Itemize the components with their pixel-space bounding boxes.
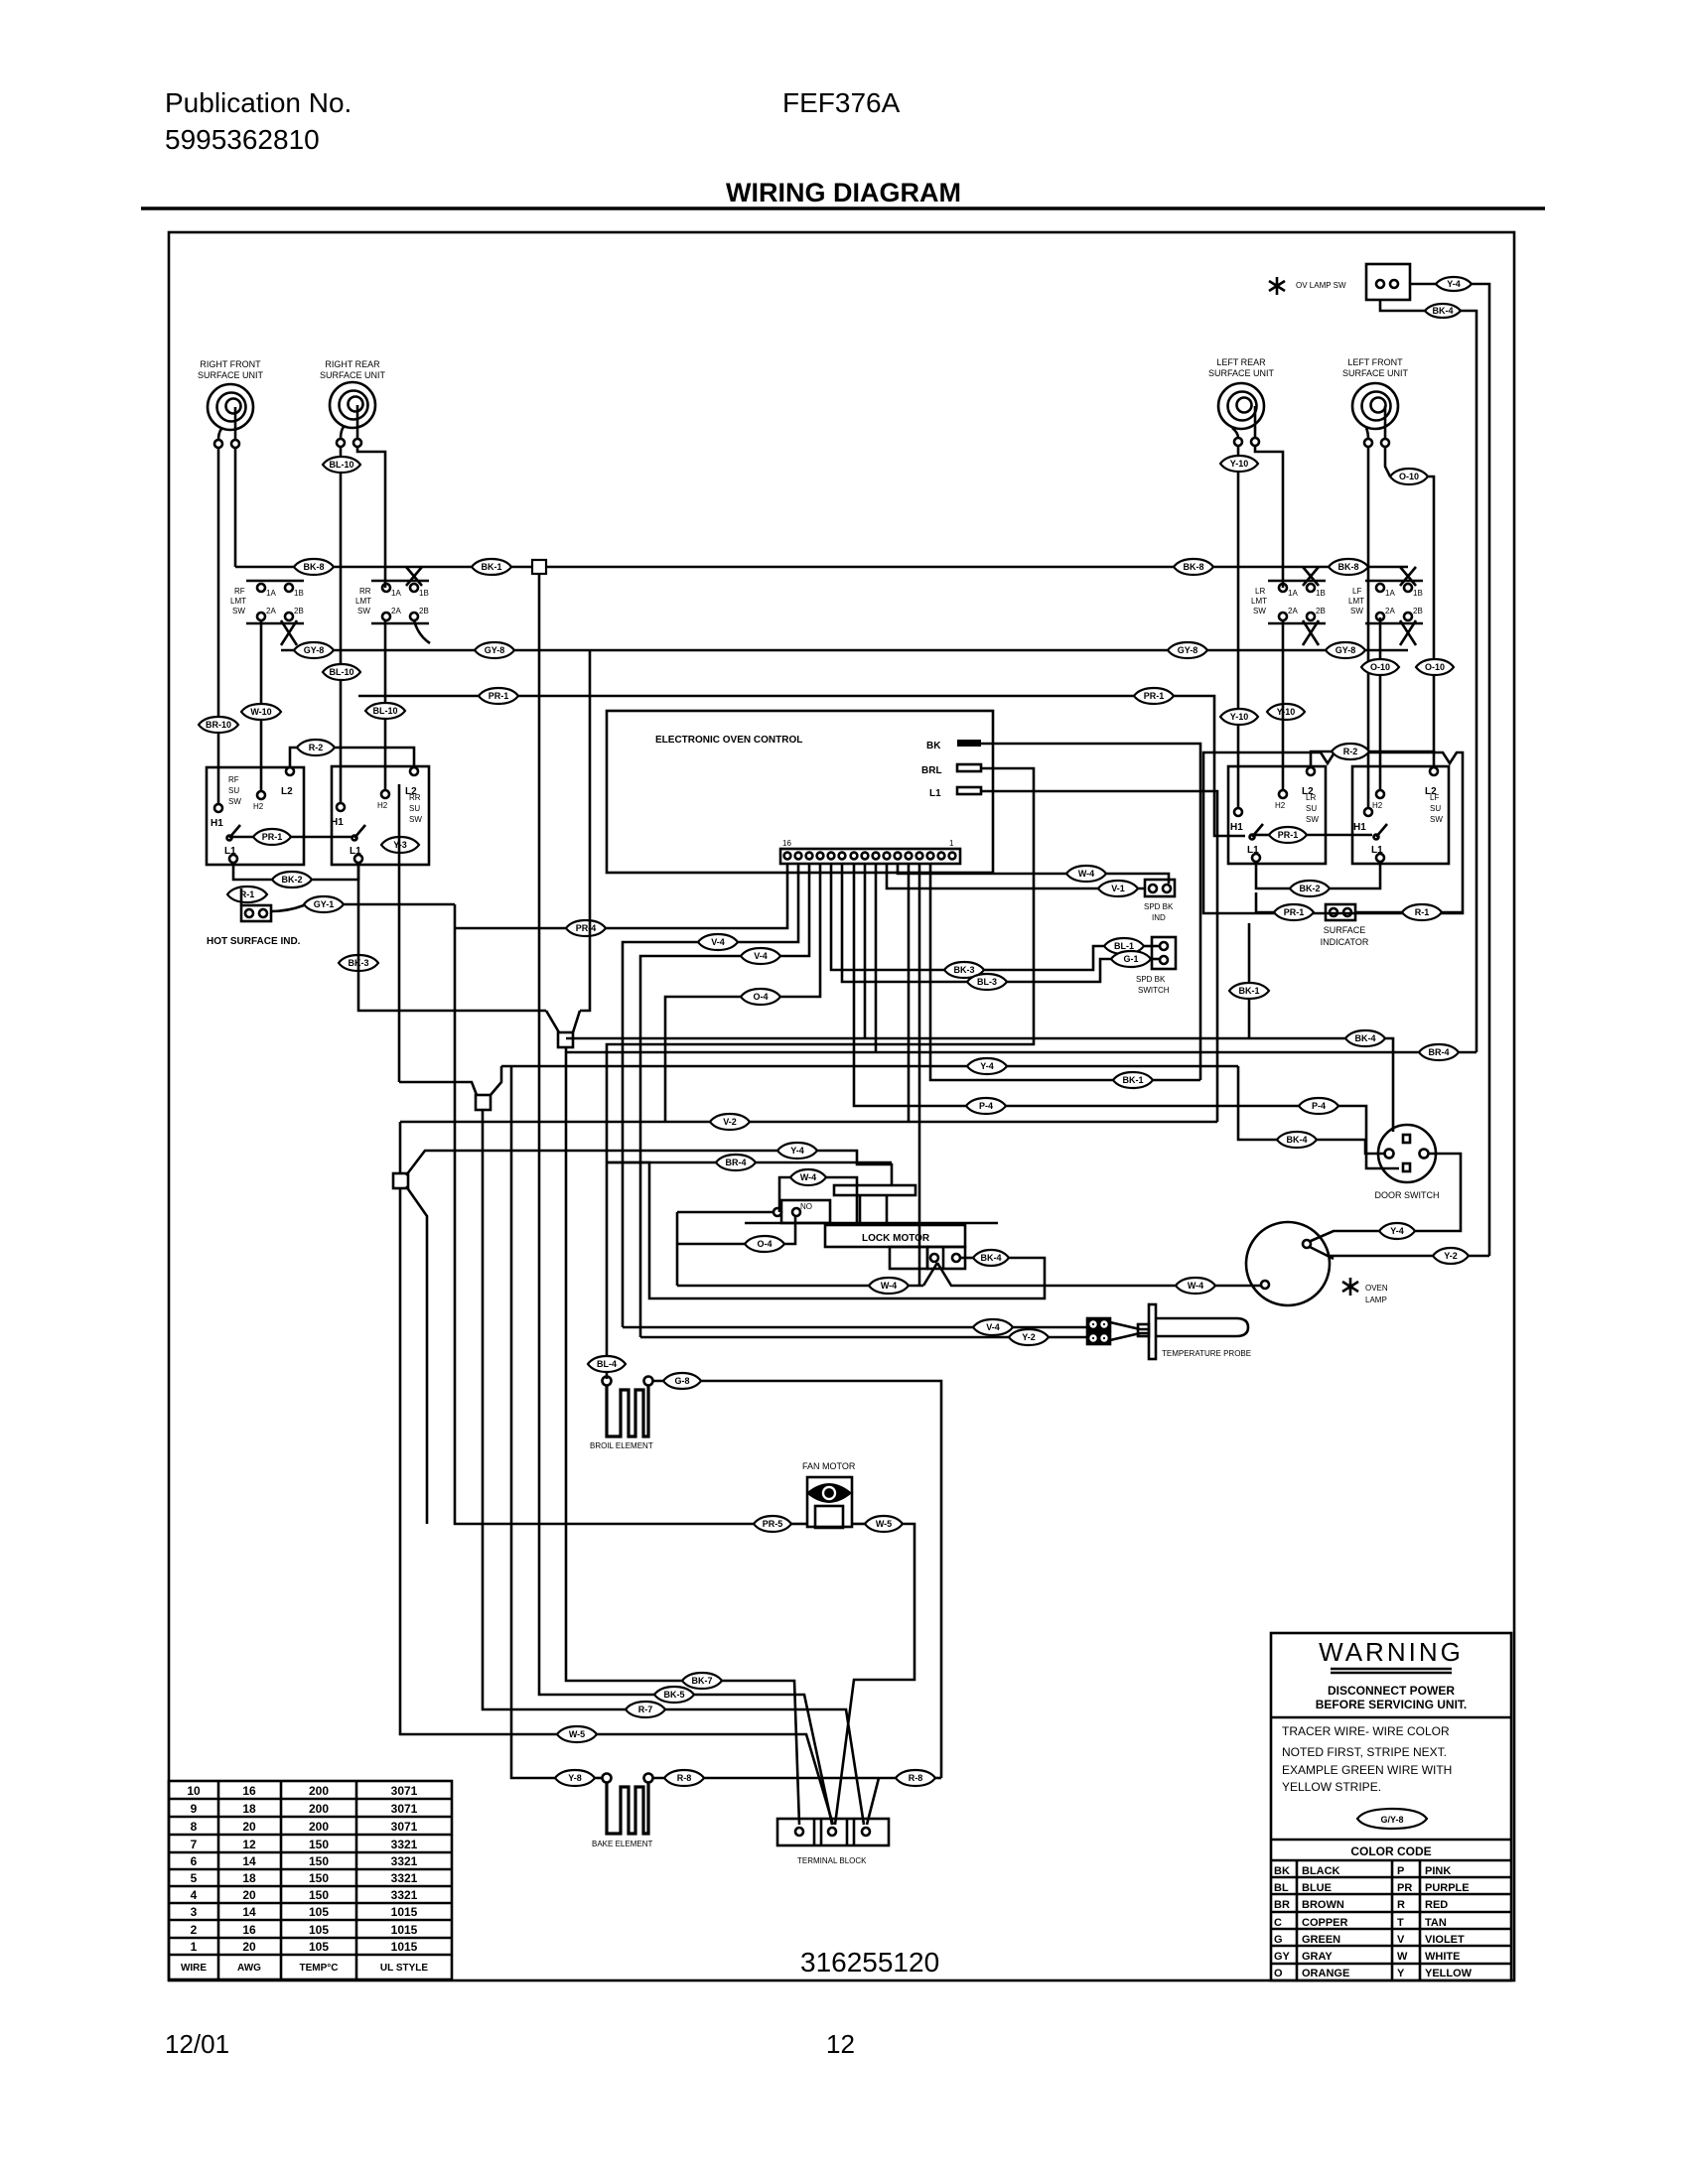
- connector BR-4 on rail: [1419, 1044, 1459, 1060]
- right front surface unit label: [198, 359, 264, 380]
- wire BK-4 rail to door switch top: [566, 1038, 1393, 1132]
- svg-text:UL STYLE: UL STYLE: [380, 1963, 428, 1974]
- wire pin3 drop to BK loop rail: [930, 864, 1200, 1080]
- svg-text:C: C: [1274, 1917, 1282, 1929]
- svg-text:LR: LR: [1255, 587, 1265, 596]
- wire pin4 deep drop to lock area: [918, 864, 921, 1286]
- wire L1 stub right then down: [981, 791, 1217, 1122]
- oven lamp: [1246, 1222, 1334, 1305]
- svg-text:Y-4: Y-4: [1390, 1226, 1404, 1236]
- svg-text:L1: L1: [224, 846, 236, 857]
- svg-text:SW: SW: [232, 607, 245, 615]
- svg-text:RF: RF: [228, 775, 239, 784]
- svg-text:H1: H1: [1353, 822, 1366, 833]
- connector BL-3: [967, 974, 1007, 990]
- svg-text:INDICATOR: INDICATOR: [1321, 937, 1369, 947]
- svg-text:105: 105: [309, 1940, 329, 1954]
- connector BK-8 right on BK rail: [1174, 559, 1213, 575]
- connector R-1: [227, 887, 267, 902]
- funnel junction B square: [476, 1095, 491, 1110]
- svg-text:ORANGE: ORANGE: [1302, 1968, 1349, 1979]
- funnel junction A: [546, 1011, 580, 1047]
- svg-text:SW: SW: [228, 797, 241, 806]
- connector BK-4 on door feed: [1277, 1132, 1317, 1148]
- connector Y-4 on rail: [967, 1058, 1007, 1074]
- wire BK rail: [235, 566, 1408, 569]
- wire LF terminal1 down to H1 LF: [1367, 447, 1370, 808]
- svg-text:3071: 3071: [391, 1802, 418, 1816]
- svg-text:IND: IND: [1152, 913, 1166, 922]
- svg-text:200: 200: [309, 1820, 329, 1834]
- svg-text:150: 150: [309, 1838, 329, 1851]
- wire fan right to W-5: [852, 1523, 865, 1526]
- svg-text:SU: SU: [228, 786, 239, 795]
- connector O-10: [1390, 469, 1428, 484]
- lock motor flag plate: [834, 1185, 915, 1195]
- wire pin8 drop to BR-4 rail: [875, 864, 878, 1052]
- wire W-4 to bar: [826, 1177, 857, 1222]
- svg-text:1B: 1B: [294, 589, 304, 598]
- svg-text:SURFACE UNIT: SURFACE UNIT: [320, 370, 386, 380]
- svg-text:COPPER: COPPER: [1302, 1917, 1348, 1929]
- LF SU SW terminal L1: [1376, 854, 1384, 862]
- svg-text:LF: LF: [1352, 587, 1361, 596]
- svg-text:WARNING: WARNING: [1319, 1637, 1464, 1667]
- svg-text:LOCK MOTOR: LOCK MOTOR: [862, 1233, 930, 1244]
- wire indicator to GY-1 to right vertical: [271, 904, 455, 911]
- svg-text:RF: RF: [234, 587, 245, 596]
- svg-text:L2: L2: [1425, 786, 1437, 797]
- wire rail down to door switch left pin: [1238, 1066, 1385, 1154]
- wire O-10 to L2 LF: [1428, 477, 1434, 751]
- connector Y-3: [381, 837, 419, 853]
- svg-text:1: 1: [949, 839, 954, 848]
- svg-text:PR-1: PR-1: [262, 832, 283, 842]
- svg-text:SURFACE UNIT: SURFACE UNIT: [198, 370, 264, 380]
- junction square on BK rail: [532, 560, 546, 574]
- spd bk switch box: [1152, 937, 1176, 969]
- svg-text:LMT: LMT: [1348, 597, 1364, 606]
- svg-text:W-4: W-4: [1188, 1281, 1203, 1291]
- svg-text:H1: H1: [211, 818, 223, 829]
- wire G-1 to switch: [1151, 958, 1160, 961]
- svg-text:DISCONNECT POWER: DISCONNECT POWER: [1328, 1684, 1455, 1698]
- svg-text:V-4: V-4: [711, 937, 725, 947]
- RR SU SW contact arm: [352, 825, 366, 841]
- junction square C: [393, 1173, 408, 1188]
- connector V-4 probe: [973, 1319, 1013, 1335]
- wire R-8 to vertical: [935, 1777, 941, 1780]
- svg-text:BK-4: BK-4: [1354, 1033, 1375, 1043]
- svg-text:PR-5: PR-5: [763, 1519, 783, 1529]
- LR limit switch block: [1268, 567, 1326, 645]
- wire BR-4 rail to lock flag: [607, 1161, 892, 1164]
- LR SU SW contact arm: [1250, 824, 1264, 840]
- svg-text:FEF376A: FEF376A: [782, 87, 901, 118]
- wire LR terminal1 down to H1 LR: [1237, 446, 1240, 808]
- connector R-2 right: [1332, 744, 1369, 759]
- svg-text:BL-1: BL-1: [1114, 941, 1134, 951]
- RR SU SW terminal H2: [381, 790, 389, 798]
- wire V notch to lock switch pin: [923, 1263, 937, 1286]
- svg-text:9: 9: [191, 1802, 198, 1816]
- surface indicator box: [1326, 904, 1355, 920]
- svg-text:GY-8: GY-8: [485, 645, 505, 655]
- wire square C SE arm down to fan feed: [406, 1186, 427, 1524]
- svg-text:GY-8: GY-8: [1336, 645, 1356, 655]
- svg-text:Y-4: Y-4: [980, 1061, 994, 1071]
- broil element: [603, 1377, 653, 1437]
- svg-text:BK-1: BK-1: [1122, 1075, 1143, 1085]
- svg-text:1A: 1A: [266, 589, 276, 598]
- wire BK square junction down to BK-5 run: [539, 574, 832, 1825]
- svg-text:OVEN: OVEN: [1365, 1284, 1388, 1293]
- RR SU SW terminal H1: [337, 803, 345, 811]
- wire RR L1 down through BK-3 to horizontal run: [358, 863, 546, 1011]
- svg-text:3321: 3321: [391, 1871, 418, 1885]
- wire Y-4 to right then down to oven lamp area: [1472, 284, 1489, 1256]
- connector BL-10 on RR t1: [323, 457, 360, 473]
- svg-text:BK-2: BK-2: [281, 875, 302, 885]
- connector PR-1 on PR rail: [479, 688, 518, 704]
- svg-text:2: 2: [191, 1923, 198, 1937]
- svg-text:1B: 1B: [1413, 589, 1423, 598]
- svg-text:G: G: [1274, 1934, 1283, 1946]
- svg-text:R-7: R-7: [638, 1705, 653, 1714]
- svg-text:OV LAMP SW: OV LAMP SW: [1296, 281, 1346, 290]
- connector W-5: [557, 1726, 597, 1742]
- svg-text:O-10: O-10: [1399, 472, 1419, 481]
- svg-text:16: 16: [242, 1784, 256, 1798]
- wire surface indicator to R-1: [1355, 911, 1402, 914]
- wire GY branch down to funnel A: [580, 650, 590, 1011]
- wire LF terminal2 to O-10 then down: [1385, 447, 1390, 477]
- connector PR-1 between RF RR contacts: [253, 829, 291, 845]
- svg-text:Y-8: Y-8: [568, 1773, 582, 1783]
- svg-text:EXAMPLE GREEN WIRE WITH: EXAMPLE GREEN WIRE WITH: [1282, 1763, 1452, 1777]
- svg-text:BROWN: BROWN: [1302, 1899, 1344, 1911]
- svg-text:150: 150: [309, 1888, 329, 1902]
- RR surface unit switch box: [332, 766, 429, 865]
- svg-text:BROIL ELEMENT: BROIL ELEMENT: [590, 1441, 653, 1450]
- wire L1 rail down to lock junction square C: [399, 1122, 402, 1173]
- wire BRL stub right then down to broil run: [607, 768, 1034, 1379]
- svg-text:3: 3: [191, 1905, 198, 1919]
- wire Y-3 vertical from RR box down: [398, 784, 401, 1082]
- svg-text:LMT: LMT: [355, 597, 371, 606]
- wire BK-4 lock loop to right and down: [607, 1162, 1045, 1298]
- svg-text:SURFACE UNIT: SURFACE UNIT: [1208, 368, 1275, 378]
- connector BK-1 below LR switch: [1229, 983, 1269, 999]
- outer box around LR LF switches: [1203, 752, 1463, 913]
- connector O-4 lock: [745, 1236, 784, 1252]
- connector Y-4 on flag rail: [777, 1143, 817, 1159]
- door switch: [1378, 1125, 1436, 1182]
- svg-text:5: 5: [191, 1871, 198, 1885]
- connector BR-10: [199, 717, 238, 733]
- connector BK-8 far right on BK rail: [1329, 559, 1368, 575]
- LR SU SW terminal L2: [1307, 767, 1315, 775]
- connector Y-2 probe: [1009, 1329, 1049, 1345]
- svg-text:BK-8: BK-8: [1337, 562, 1358, 572]
- svg-text:4: 4: [191, 1888, 198, 1902]
- wire O-4 to cam circle: [677, 1243, 745, 1246]
- LR SU SW terminal L1: [1252, 854, 1260, 862]
- svg-text:PR-4: PR-4: [576, 923, 597, 933]
- title underline: [141, 206, 1545, 210]
- wire RF 2A down to W-10 and H2: [260, 620, 263, 791]
- svg-text:WIRE: WIRE: [181, 1963, 207, 1974]
- oven lamp label: [1342, 1278, 1358, 1296]
- svg-text:L2: L2: [405, 786, 417, 797]
- connector BK-2 right: [1290, 881, 1330, 896]
- wire BK-2 link LR L1 to LF L1: [1256, 862, 1380, 888]
- svg-text:BK-7: BK-7: [691, 1676, 712, 1686]
- svg-text:Y-4: Y-4: [1447, 279, 1461, 289]
- svg-text:12/01: 12/01: [165, 2029, 229, 2059]
- svg-text:V: V: [1397, 1934, 1405, 1946]
- connector W-10: [241, 704, 281, 720]
- svg-text:8: 8: [191, 1820, 198, 1834]
- connector PR-1 to surface indicator: [1274, 904, 1314, 920]
- svg-text:W-10: W-10: [250, 707, 271, 717]
- svg-text:G-8: G-8: [674, 1376, 689, 1386]
- svg-text:YELLOW STRIPE.: YELLOW STRIPE.: [1282, 1780, 1381, 1794]
- svg-text:PR-1: PR-1: [1144, 691, 1165, 701]
- connector W-5 fan: [865, 1516, 903, 1532]
- svg-text:BK-4: BK-4: [980, 1253, 1001, 1263]
- color code table: [1271, 1839, 1511, 1842]
- svg-text:GY-1: GY-1: [314, 899, 335, 909]
- svg-text:PR-1: PR-1: [489, 691, 509, 701]
- svg-text:12: 12: [242, 1838, 256, 1851]
- svg-text:1A: 1A: [391, 589, 401, 598]
- svg-text:3321: 3321: [391, 1838, 418, 1851]
- svg-text:BK-3: BK-3: [953, 965, 974, 975]
- svg-text:L1: L1: [929, 788, 941, 799]
- wire BK-2 link RF L1 to RR L1: [233, 863, 358, 880]
- connector G/Y-8 example: [1357, 1809, 1427, 1829]
- svg-text:18: 18: [242, 1802, 256, 1816]
- svg-text:2B: 2B: [294, 607, 304, 615]
- svg-text:W-5: W-5: [876, 1519, 892, 1529]
- svg-text:O-10: O-10: [1425, 662, 1445, 672]
- wire funnel A down to BK-7 run: [566, 1047, 799, 1825]
- svg-text:1A: 1A: [1385, 589, 1395, 598]
- terminal block: [777, 1819, 889, 1845]
- svg-text:20: 20: [242, 1940, 256, 1954]
- connector R-8 bake: [664, 1770, 704, 1786]
- svg-text:SW: SW: [1350, 607, 1363, 615]
- wire OV LAMP SW pin down to BK-4: [1380, 300, 1425, 311]
- connector O-4: [741, 989, 780, 1005]
- connector BR-4 lock: [716, 1155, 756, 1170]
- left rear surface unit label: [1208, 357, 1275, 378]
- spd bk indicator box: [1145, 880, 1175, 896]
- svg-text:150: 150: [309, 1854, 329, 1868]
- svg-text:1015: 1015: [391, 1923, 418, 1937]
- svg-text:SW: SW: [1430, 815, 1443, 824]
- svg-text:14: 14: [242, 1854, 256, 1868]
- svg-text:BK-8: BK-8: [1183, 562, 1203, 572]
- svg-text:V-4: V-4: [754, 951, 768, 961]
- wire BK stub to right loop: [981, 744, 1200, 1080]
- wire Y-3 corner to funnel B: [399, 1082, 477, 1095]
- connector Y-10 lower on LR t1: [1220, 709, 1258, 725]
- RR limit switch block: [371, 567, 430, 643]
- svg-text:G-1: G-1: [1123, 954, 1138, 964]
- wire pin10 drop to P-4 rail to door switch bottom: [854, 864, 1399, 1168]
- svg-text:2A: 2A: [1288, 607, 1298, 615]
- svg-text:316255120: 316255120: [800, 1947, 939, 1978]
- connector W-4 to oven lamp: [1176, 1278, 1215, 1294]
- lock cam box: [774, 1200, 830, 1223]
- svg-text:LAMP: LAMP: [1365, 1296, 1387, 1304]
- warning box: [1271, 1633, 1511, 1980]
- connector BK-8 on BK rail: [294, 559, 334, 575]
- svg-text:3321: 3321: [391, 1854, 418, 1868]
- svg-text:R-2: R-2: [1343, 747, 1358, 756]
- svg-text:BK-2: BK-2: [1299, 884, 1320, 893]
- svg-text:14: 14: [242, 1905, 256, 1919]
- wire lock switch right loop: [960, 1257, 973, 1260]
- temperature probe plug: [1087, 1318, 1150, 1344]
- svg-text:R-8: R-8: [677, 1773, 692, 1783]
- svg-text:7: 7: [191, 1838, 198, 1851]
- LF SU SW terminal L2: [1430, 767, 1438, 775]
- LR SU SW terminal H1: [1234, 808, 1242, 816]
- svg-text:105: 105: [309, 1905, 329, 1919]
- connector GY-8 second: [475, 642, 514, 658]
- wire contact link LR to LF: [1255, 834, 1269, 837]
- svg-text:TEMPERATURE PROBE: TEMPERATURE PROBE: [1162, 1349, 1251, 1358]
- wire pin13 drop to O-4 rail: [665, 864, 820, 1122]
- bake element: [595, 1774, 653, 1835]
- svg-text:O: O: [1274, 1968, 1283, 1979]
- svg-text:COLOR CODE: COLOR CODE: [1350, 1844, 1431, 1858]
- wire temperature probe upper rail: [623, 1326, 1088, 1329]
- wire Y-4 rail across to door area: [501, 1065, 1238, 1068]
- RF SU SW terminal H1: [214, 804, 222, 812]
- svg-text:H2: H2: [377, 801, 388, 810]
- svg-text:1015: 1015: [391, 1940, 418, 1954]
- right rear surface unit label: [320, 359, 386, 380]
- wire fan feed left PR-5: [455, 904, 754, 1524]
- connector W-4 lock cam: [790, 1169, 826, 1185]
- svg-text:BR-4: BR-4: [725, 1158, 746, 1167]
- svg-text:W-5: W-5: [569, 1729, 585, 1739]
- svg-text:16: 16: [782, 839, 791, 848]
- svg-text:TRACER WIRE- WIRE COLOR: TRACER WIRE- WIRE COLOR: [1282, 1724, 1450, 1738]
- wire W-4 rail to lock cam: [779, 1177, 790, 1212]
- wire Y-2 to lamp: [1329, 1255, 1433, 1258]
- wire pin6 drop to W-4 rail: [898, 864, 1169, 884]
- wire R-2 link RF L2 to RR L2: [290, 748, 414, 767]
- lock motor body box: [825, 1225, 965, 1247]
- connector V-1: [1098, 881, 1138, 896]
- wire OV LAMP SW to Y-4: [1410, 283, 1436, 286]
- svg-text:PR-1: PR-1: [1278, 830, 1299, 840]
- svg-text:BK-4: BK-4: [1432, 306, 1453, 316]
- wire pin5 drop to L1 rail: [908, 864, 911, 1122]
- svg-text:18: 18: [242, 1871, 256, 1885]
- connector PR-1 right on PR rail: [1134, 688, 1174, 704]
- wire LR 2A down to H2 LR: [1282, 620, 1285, 790]
- svg-text:BK: BK: [1274, 1865, 1290, 1877]
- svg-text:BR: BR: [1274, 1899, 1290, 1911]
- svg-text:L1: L1: [350, 846, 361, 857]
- connector V-4: [698, 934, 738, 950]
- svg-text:L2: L2: [281, 786, 293, 797]
- wire PR-5 to fan: [791, 1523, 807, 1526]
- svg-text:Y-10: Y-10: [1230, 712, 1249, 722]
- connector R-2: [297, 740, 335, 755]
- wire G-8 to right and down: [653, 1381, 941, 1778]
- wire cam feed from left: [677, 1211, 774, 1214]
- main diagram border frame: [169, 232, 1514, 1980]
- svg-text:FAN MOTOR: FAN MOTOR: [802, 1461, 856, 1471]
- svg-text:H2: H2: [253, 802, 264, 811]
- wire pin16 drop to PR-4 rail: [454, 864, 787, 928]
- wire square C NE arm to lock flag rail: [406, 1151, 834, 1175]
- svg-text:BL: BL: [1274, 1882, 1289, 1894]
- svg-text:105: 105: [309, 1923, 329, 1937]
- RF limit switch block: [246, 581, 304, 645]
- connector BK-3: [339, 955, 378, 971]
- wire Y-4 up to door right pin: [1415, 1154, 1461, 1231]
- lock motor stem: [859, 1195, 862, 1222]
- svg-text:O-10: O-10: [1370, 662, 1390, 672]
- wire BL-1 to switch: [1144, 945, 1160, 948]
- svg-text:R-1: R-1: [1415, 907, 1430, 917]
- wire pin11 drop to BL-3 rail: [842, 864, 1111, 982]
- wire bake to right: [653, 1777, 896, 1780]
- svg-text:L1: L1: [1247, 845, 1259, 856]
- connector PR-1 between LR LF contacts: [1269, 827, 1307, 843]
- svg-text:LMT: LMT: [230, 597, 246, 606]
- wire BK-4 down right side: [1461, 311, 1477, 1052]
- connector BK-1 on BK rail: [472, 559, 511, 575]
- wire RR terminal2 right then down to RR limit switch: [357, 447, 385, 588]
- connector Y-10 on LR t1: [1220, 456, 1258, 472]
- svg-text:R-8: R-8: [909, 1773, 923, 1783]
- svg-text:W-4: W-4: [881, 1281, 897, 1291]
- svg-text:W: W: [1397, 1951, 1408, 1963]
- svg-text:P-4: P-4: [979, 1101, 993, 1111]
- svg-text:20: 20: [242, 1888, 256, 1902]
- wire right vertical to Y-2 oval: [1469, 1255, 1489, 1258]
- connector Y-4 lamp to door: [1379, 1223, 1415, 1239]
- svg-text:1B: 1B: [1316, 589, 1326, 598]
- connector BL-4 broil feed: [588, 1356, 626, 1372]
- RF SU SW terminal L2: [286, 767, 294, 775]
- svg-text:R-2: R-2: [309, 743, 324, 752]
- connector BK-1 on loop rail: [1113, 1072, 1153, 1088]
- svg-text:BK-1: BK-1: [1238, 986, 1259, 996]
- svg-text:G/Y-8: G/Y-8: [1380, 1815, 1403, 1825]
- svg-text:Y-10: Y-10: [1230, 459, 1249, 469]
- svg-text:SW: SW: [1306, 815, 1319, 824]
- svg-text:SW: SW: [357, 607, 370, 615]
- EOC pin header connector: [780, 849, 960, 864]
- svg-text:1: 1: [191, 1940, 198, 1954]
- RF surface unit switch box: [207, 767, 304, 865]
- connector W-4: [1066, 866, 1106, 882]
- svg-text:PURPLE: PURPLE: [1425, 1882, 1470, 1894]
- wire flag rail down to flag: [834, 1151, 892, 1185]
- connector BK-5: [654, 1687, 694, 1703]
- svg-text:150: 150: [309, 1871, 329, 1885]
